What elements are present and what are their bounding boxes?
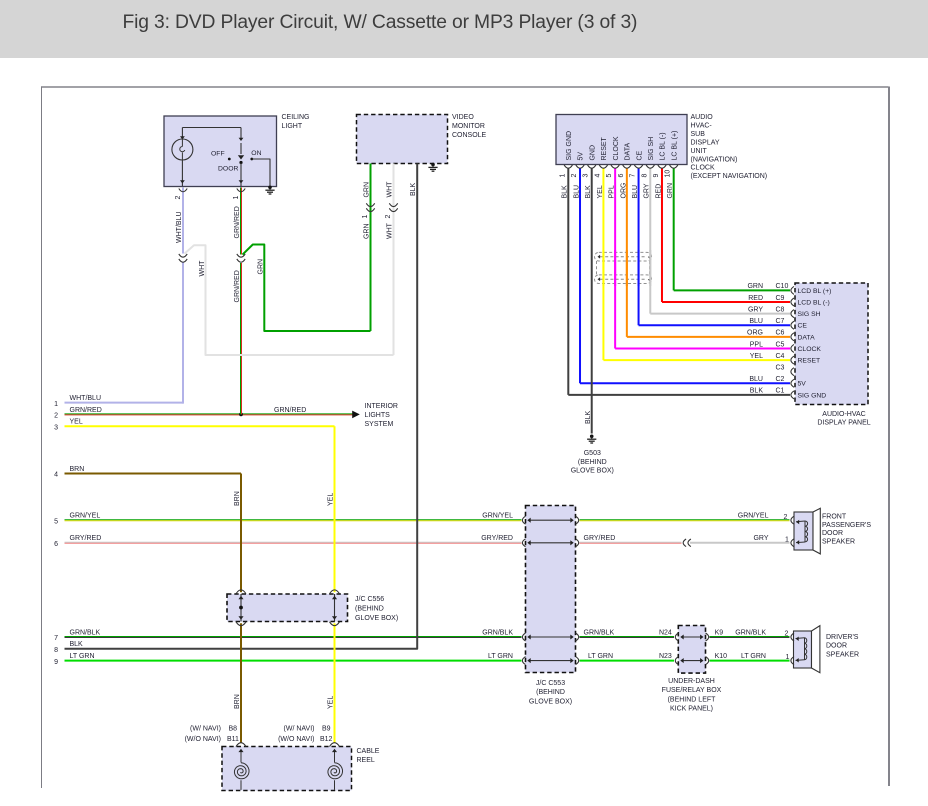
svg-text:DOOR: DOOR <box>218 165 238 172</box>
svg-text:9: 9 <box>54 659 58 666</box>
svg-text:6: 6 <box>618 174 625 178</box>
svg-text:ON: ON <box>251 150 261 157</box>
svg-text:GRN/BLK: GRN/BLK <box>584 629 615 636</box>
svg-text:G503: G503 <box>584 450 601 457</box>
svg-text:GRN/BLK: GRN/BLK <box>482 629 513 636</box>
svg-text:2: 2 <box>784 514 788 521</box>
svg-text:WHT: WHT <box>387 181 394 198</box>
svg-text:ORG: ORG <box>620 183 627 199</box>
svg-text:BRN: BRN <box>234 694 241 709</box>
svg-text:GRN/BLK: GRN/BLK <box>735 629 766 636</box>
svg-text:3: 3 <box>583 174 590 178</box>
svg-text:N23: N23 <box>659 653 672 660</box>
svg-text:GRN/YEL: GRN/YEL <box>738 513 769 520</box>
svg-text:MONITOR: MONITOR <box>452 123 485 130</box>
svg-text:LT GRN: LT GRN <box>488 653 513 660</box>
svg-text:SYSTEM: SYSTEM <box>365 421 394 428</box>
svg-text:(W/O NAVI): (W/O NAVI) <box>185 736 221 743</box>
svg-text:SPEAKER: SPEAKER <box>826 652 859 659</box>
svg-text:K10: K10 <box>715 653 728 660</box>
svg-text:LT GRN: LT GRN <box>741 653 766 660</box>
svg-text:DATA: DATA <box>625 143 632 161</box>
svg-text:UNDER-DASH: UNDER-DASH <box>668 678 715 685</box>
svg-text:2: 2 <box>785 631 789 638</box>
svg-text:AUDIO: AUDIO <box>691 114 714 121</box>
svg-text:CONSOLE: CONSOLE <box>452 132 487 139</box>
svg-text:FRONT: FRONT <box>822 514 847 521</box>
svg-text:GRN: GRN <box>747 283 763 290</box>
svg-text:KICK PANEL): KICK PANEL) <box>670 705 713 712</box>
svg-text:(NAVIGATION): (NAVIGATION) <box>691 156 738 163</box>
svg-text:DISPLAY: DISPLAY <box>691 139 720 146</box>
svg-text:7: 7 <box>630 174 637 178</box>
svg-text:CE: CE <box>636 150 643 160</box>
svg-text:GRN/RED: GRN/RED <box>70 407 102 414</box>
svg-text:PPL: PPL <box>750 341 763 348</box>
svg-text:FUSE/RELAY BOX: FUSE/RELAY BOX <box>662 687 722 694</box>
svg-text:BLK: BLK <box>562 185 569 199</box>
svg-text:(W/ NAVI): (W/ NAVI) <box>190 726 221 733</box>
svg-text:ORG: ORG <box>747 330 763 337</box>
svg-text:1: 1 <box>786 654 790 661</box>
svg-text:BLU: BLU <box>749 318 763 325</box>
svg-text:(BEHIND: (BEHIND <box>355 605 384 612</box>
svg-text:LT GRN: LT GRN <box>588 653 613 660</box>
svg-text:C3: C3 <box>776 364 785 371</box>
svg-text:GRY: GRY <box>644 183 651 198</box>
svg-text:LC BL (-): LC BL (-) <box>660 132 667 160</box>
svg-text:SIG SH: SIG SH <box>798 311 821 318</box>
svg-text:YEL: YEL <box>70 419 83 426</box>
svg-text:RED: RED <box>748 295 763 302</box>
svg-text:PPL: PPL <box>609 185 616 198</box>
svg-text:LIGHTS: LIGHTS <box>365 412 391 419</box>
svg-text:4: 4 <box>54 472 58 479</box>
svg-text:WHT/BLU: WHT/BLU <box>70 395 102 402</box>
svg-text:CLOCK: CLOCK <box>691 165 715 172</box>
svg-text:RESET: RESET <box>798 357 821 364</box>
svg-text:5: 5 <box>606 174 613 178</box>
svg-text:GRN/BLK: GRN/BLK <box>70 629 101 636</box>
svg-text:BLU: BLU <box>749 376 763 383</box>
svg-text:B8: B8 <box>229 726 238 733</box>
svg-text:YEL: YEL <box>328 493 335 506</box>
svg-text:J/C C553: J/C C553 <box>536 680 565 687</box>
svg-text:(W/ NAVI): (W/ NAVI) <box>284 726 315 733</box>
svg-text:B11: B11 <box>227 736 239 743</box>
svg-text:5: 5 <box>54 518 58 525</box>
svg-text:BLK: BLK <box>70 641 84 648</box>
svg-text:1: 1 <box>785 536 789 543</box>
svg-text:8: 8 <box>641 174 648 178</box>
svg-text:GRY/RED: GRY/RED <box>584 535 616 542</box>
svg-text:2: 2 <box>175 196 182 200</box>
svg-text:BLK: BLK <box>410 182 417 196</box>
svg-text:WHT: WHT <box>199 260 206 277</box>
svg-text:SIG SH: SIG SH <box>648 137 655 161</box>
svg-text:GRN: GRN <box>364 182 371 198</box>
svg-text:10: 10 <box>665 170 672 178</box>
svg-text:9: 9 <box>653 174 660 178</box>
svg-text:CE: CE <box>798 323 808 330</box>
svg-text:DRIVER'S: DRIVER'S <box>826 634 859 641</box>
svg-text:GRY: GRY <box>753 535 768 542</box>
svg-text:GLOVE BOX): GLOVE BOX) <box>571 468 614 475</box>
svg-text:LC BL (+): LC BL (+) <box>671 131 678 161</box>
svg-text:1: 1 <box>54 401 58 408</box>
svg-text:OFF: OFF <box>211 150 225 157</box>
svg-text:SUB: SUB <box>691 131 706 138</box>
svg-text:J/C C556: J/C C556 <box>355 596 384 603</box>
svg-text:DOOR: DOOR <box>826 643 847 650</box>
svg-text:Fig 3: DVD Player Circuit, W/: Fig 3: DVD Player Circuit, W/ Cassette o… <box>123 12 638 33</box>
svg-text:C6: C6 <box>776 330 785 337</box>
svg-text:REEL: REEL <box>357 757 375 764</box>
svg-text:CLOCK: CLOCK <box>613 136 620 160</box>
svg-text:4: 4 <box>594 174 601 178</box>
svg-text:LT GRN: LT GRN <box>70 653 95 660</box>
svg-text:GRN/YEL: GRN/YEL <box>70 513 101 520</box>
svg-text:HVAC-: HVAC- <box>691 122 713 129</box>
svg-text:CABLE: CABLE <box>357 748 380 755</box>
svg-text:LCD BL (+): LCD BL (+) <box>798 288 832 295</box>
svg-text:RESET: RESET <box>601 136 608 160</box>
svg-text:WHT: WHT <box>387 222 394 239</box>
svg-text:3: 3 <box>54 425 58 432</box>
svg-text:DATA: DATA <box>798 334 816 341</box>
svg-text:GRN/RED: GRN/RED <box>234 206 241 238</box>
svg-text:1: 1 <box>233 196 240 200</box>
svg-text:5V: 5V <box>578 152 585 161</box>
svg-text:INTERIOR: INTERIOR <box>365 403 398 410</box>
svg-text:GRN: GRN <box>667 183 674 199</box>
svg-text:(BEHIND: (BEHIND <box>578 459 607 466</box>
svg-text:N24: N24 <box>659 629 672 636</box>
svg-text:C1: C1 <box>776 388 785 395</box>
svg-text:VIDEO: VIDEO <box>452 114 474 121</box>
svg-text:GRN/YEL: GRN/YEL <box>482 513 513 520</box>
svg-text:BLK: BLK <box>585 185 592 199</box>
svg-text:BRN: BRN <box>70 466 85 473</box>
svg-text:WHT/BLU: WHT/BLU <box>176 212 183 244</box>
svg-text:PASSENGER'S: PASSENGER'S <box>822 522 871 529</box>
svg-text:C5: C5 <box>776 341 785 348</box>
svg-text:RED: RED <box>655 184 662 199</box>
svg-text:(BEHIND: (BEHIND <box>536 689 565 696</box>
svg-text:GLOVE BOX): GLOVE BOX) <box>355 615 398 622</box>
svg-text:BRN: BRN <box>234 491 241 506</box>
svg-text:AUDIO-HVAC: AUDIO-HVAC <box>822 411 865 418</box>
svg-text:YEL: YEL <box>328 696 335 709</box>
svg-text:BLU: BLU <box>573 185 580 199</box>
svg-text:1: 1 <box>362 215 369 219</box>
svg-text:C4: C4 <box>776 353 785 360</box>
svg-text:BLK: BLK <box>585 410 592 424</box>
svg-text:C9: C9 <box>776 295 785 302</box>
svg-text:GRN: GRN <box>258 259 265 275</box>
svg-text:6: 6 <box>54 541 58 548</box>
svg-text:7: 7 <box>54 635 58 642</box>
svg-text:DISPLAY PANEL: DISPLAY PANEL <box>817 420 870 427</box>
svg-text:8: 8 <box>54 647 58 654</box>
svg-text:C10: C10 <box>776 283 789 290</box>
svg-text:UNIT: UNIT <box>691 148 708 155</box>
svg-text:2: 2 <box>385 215 392 219</box>
svg-text:SIG GND: SIG GND <box>566 131 573 161</box>
svg-text:SPEAKER: SPEAKER <box>822 539 855 546</box>
svg-text:GRY/RED: GRY/RED <box>70 535 102 542</box>
svg-text:CEILING: CEILING <box>282 114 310 121</box>
svg-text:GRY/RED: GRY/RED <box>481 535 513 542</box>
svg-text:SIG GND: SIG GND <box>798 392 827 399</box>
svg-text:GRY: GRY <box>748 306 763 313</box>
svg-text:(W/O NAVI): (W/O NAVI) <box>278 736 314 743</box>
svg-text:BLU: BLU <box>632 185 639 199</box>
svg-text:C7: C7 <box>776 318 785 325</box>
svg-text:5V: 5V <box>798 381 807 388</box>
svg-text:DOOR: DOOR <box>822 530 843 537</box>
svg-text:2: 2 <box>54 413 58 420</box>
svg-text:GRN: GRN <box>364 223 371 239</box>
svg-text:1: 1 <box>559 174 566 178</box>
svg-text:B12: B12 <box>320 736 333 743</box>
svg-text:CLOCK: CLOCK <box>798 346 822 353</box>
svg-text:GND: GND <box>589 145 596 161</box>
svg-text:K9: K9 <box>715 629 724 636</box>
svg-text:C8: C8 <box>776 306 785 313</box>
svg-text:BLK: BLK <box>750 388 764 395</box>
svg-text:GRN/RED: GRN/RED <box>234 270 241 302</box>
svg-text:2: 2 <box>571 174 578 178</box>
svg-text:C2: C2 <box>776 376 785 383</box>
svg-text:LCD BL (-): LCD BL (-) <box>798 299 830 306</box>
svg-text:LIGHT: LIGHT <box>282 123 303 130</box>
svg-text:(EXCEPT NAVIGATION): (EXCEPT NAVIGATION) <box>691 173 768 180</box>
svg-text:B9: B9 <box>322 726 331 733</box>
svg-text:(BEHIND LEFT: (BEHIND LEFT <box>668 696 717 703</box>
svg-text:YEL: YEL <box>750 353 763 360</box>
svg-text:GLOVE BOX): GLOVE BOX) <box>529 699 572 706</box>
svg-text:GRN/RED: GRN/RED <box>274 407 306 414</box>
svg-text:YEL: YEL <box>597 185 604 198</box>
